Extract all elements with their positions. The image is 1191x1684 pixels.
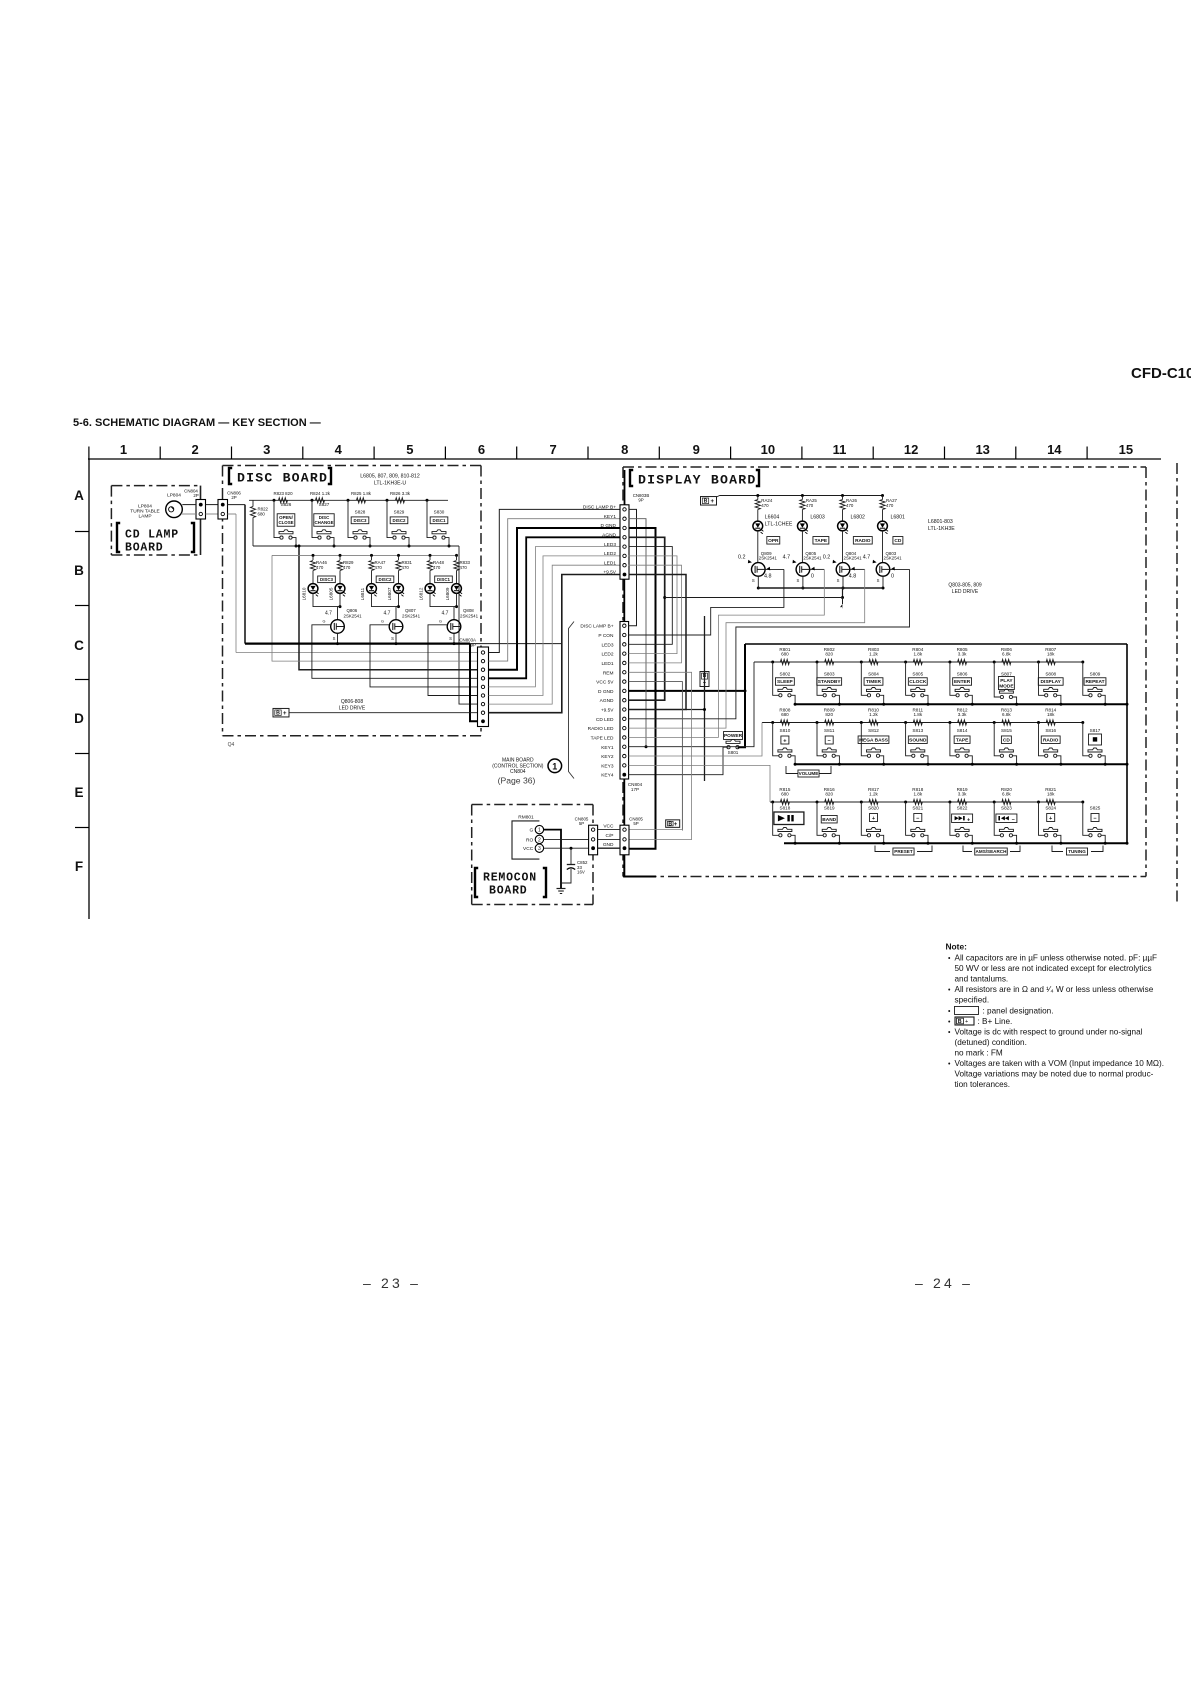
LED L6809 bbox=[452, 584, 462, 594]
svg-text:+9.5V: +9.5V bbox=[601, 708, 614, 714]
resistor RA48 470 bbox=[429, 554, 432, 557]
svg-text:0: 0 bbox=[811, 574, 814, 580]
switch S802 tap wire bbox=[771, 661, 774, 664]
svg-text:2SK2541: 2SK2541 bbox=[844, 556, 863, 561]
wire AGND to LED source bus bbox=[665, 597, 843, 599]
gate wire Q809 bbox=[765, 568, 784, 570]
svg-text:9P: 9P bbox=[638, 498, 643, 503]
grid ruler tick column 11 bbox=[801, 447, 803, 460]
gate wire Q803 bbox=[890, 568, 910, 570]
switch S824 tap wire bbox=[1037, 801, 1040, 804]
RM801 pin 2 RO bbox=[535, 835, 543, 843]
switch S805 bus wire bbox=[924, 695, 928, 704]
switch S811 bus wire bbox=[835, 756, 839, 765]
svg-text:BOARD: BOARD bbox=[489, 885, 528, 898]
svg-text:S806: S806 bbox=[957, 672, 968, 677]
panel label DISC2 bbox=[376, 576, 394, 583]
svg-text:Q4: Q4 bbox=[228, 742, 235, 748]
svg-text:KEY2: KEY2 bbox=[601, 754, 614, 760]
disc board key bus 2 bbox=[253, 545, 459, 547]
svg-text:BAND: BAND bbox=[822, 817, 836, 823]
grid ruler tick column 4 bbox=[302, 447, 304, 460]
svg-text:DISC2: DISC2 bbox=[393, 518, 406, 523]
wire KEY2 to row2 bbox=[629, 723, 762, 757]
svg-text:Q806: Q806 bbox=[347, 608, 358, 613]
svg-text:S813: S813 bbox=[912, 728, 923, 733]
wire CN804 to CN805 shell bbox=[623, 779, 625, 825]
wire B+ to CN803A pin8 bbox=[289, 712, 478, 714]
key matrix row 3 scan wire bbox=[770, 801, 1083, 803]
svg-text:GND: GND bbox=[603, 842, 614, 848]
LED L6803 bbox=[798, 521, 808, 531]
svg-text:0.2: 0.2 bbox=[823, 555, 831, 561]
svg-text:: panel designation.: : panel designation. bbox=[983, 1006, 1054, 1015]
svg-text:F: F bbox=[75, 859, 83, 874]
resistor R804 1.8k bbox=[913, 659, 922, 664]
svg-text:50 WV or less are not indicate: 50 WV or less are not indicated except f… bbox=[955, 964, 1152, 973]
svg-text:1: 1 bbox=[538, 828, 541, 834]
switch S819 tap wire bbox=[816, 801, 819, 804]
svg-text:18k: 18k bbox=[1047, 652, 1055, 657]
switch S811 tap wire bbox=[816, 721, 819, 724]
svg-text:All capacitors are in µF unles: All capacitors are in µF unless otherwis… bbox=[955, 954, 1158, 963]
svg-text:KEY1: KEY1 bbox=[601, 745, 614, 751]
svg-text:D: D bbox=[74, 711, 84, 726]
svg-text:TAPE: TAPE bbox=[956, 737, 969, 743]
svg-text:– 23 –: – 23 – bbox=[363, 1275, 421, 1291]
svg-text:Voltage is dc with respect to: Voltage is dc with respect to ground und… bbox=[955, 1027, 1143, 1036]
switch S805 tap wire bbox=[904, 661, 907, 664]
grid ruler tick column 5 bbox=[373, 447, 375, 460]
svg-text:R824 1.2k: R824 1.2k bbox=[310, 491, 331, 496]
grid ruler tick column 9 bbox=[658, 447, 660, 460]
svg-text:6.8k: 6.8k bbox=[1002, 652, 1011, 657]
wire KEY3 to row3 bbox=[629, 765, 770, 802]
REMOCON BOARD border bbox=[472, 804, 593, 806]
svg-text:S828: S828 bbox=[355, 510, 366, 515]
svg-text:LED1: LED1 bbox=[604, 560, 616, 566]
switch S820 bus wire bbox=[880, 835, 884, 843]
svg-text:E: E bbox=[74, 785, 83, 800]
wire LED to transistor Q805 bbox=[801, 531, 803, 563]
svg-text:CFD-C100: CFD-C100 bbox=[1131, 365, 1191, 382]
svg-text:820: 820 bbox=[825, 792, 833, 797]
wire AGND link bbox=[629, 537, 665, 700]
wire +9.5V to matrix rail bbox=[686, 616, 705, 710]
wire LED pair 1 cathode join bbox=[372, 593, 399, 606]
switch S815 tap wire bbox=[993, 721, 996, 724]
svg-text:L6604: L6604 bbox=[765, 515, 780, 521]
svg-text:5P: 5P bbox=[633, 821, 638, 826]
DISC BOARD border bbox=[223, 465, 482, 467]
switch S810 tap wire bbox=[771, 721, 774, 724]
svg-text:1.2k: 1.2k bbox=[869, 652, 878, 657]
svg-text:S: S bbox=[837, 578, 840, 583]
B+ box matrix feed bbox=[700, 672, 709, 687]
transistor Q806 2SK2541 bbox=[331, 620, 345, 634]
gate wire Q804 bbox=[850, 568, 865, 570]
svg-text:680: 680 bbox=[781, 652, 789, 657]
resistor R808 680 bbox=[780, 720, 789, 725]
svg-text:S: S bbox=[877, 578, 880, 583]
svg-text:4.8: 4.8 bbox=[764, 574, 772, 580]
svg-text:POWER: POWER bbox=[724, 733, 743, 739]
grid ruler tick column 12 bbox=[872, 447, 874, 460]
wire RADIO LED to Q804 gate bbox=[629, 569, 865, 728]
svg-text:LTL-1KH3E-U: LTL-1KH3E-U bbox=[374, 481, 406, 487]
svg-text:P CON: P CON bbox=[598, 633, 614, 639]
wire LED to transistor Q803 bbox=[882, 531, 884, 563]
switch S818 tap wire bbox=[771, 801, 774, 804]
transistor Q804 2SK2541 bbox=[836, 563, 850, 577]
svg-text:9: 9 bbox=[693, 442, 700, 457]
grid ruler tick column 15 bbox=[1086, 447, 1088, 460]
svg-text:+9.5V: +9.5V bbox=[603, 570, 616, 576]
gate wire Q808 bbox=[428, 625, 478, 696]
resistor RA25 470 bbox=[801, 494, 804, 497]
svg-text:S807: S807 bbox=[1001, 672, 1012, 677]
svg-text:TIMER: TIMER bbox=[866, 679, 881, 685]
cable wire CN803A pin8 to CN803B pin8 bbox=[489, 575, 621, 713]
svg-text:TAPE LED: TAPE LED bbox=[591, 735, 614, 741]
cable wire CN803A pin2 to CN803B pin2 bbox=[489, 519, 621, 661]
svg-text:KEY3: KEY3 bbox=[601, 763, 614, 769]
svg-text:D GND: D GND bbox=[601, 523, 617, 529]
svg-text:470: 470 bbox=[846, 503, 854, 508]
wire LED3 link bbox=[629, 547, 673, 645]
svg-text:S815: S815 bbox=[1001, 728, 1012, 733]
svg-text:REPEAT: REPEAT bbox=[1085, 679, 1104, 685]
wire KEY1 link bbox=[629, 519, 646, 747]
wire disc lamp B+ vertical bbox=[244, 505, 246, 644]
svg-text:Q807: Q807 bbox=[405, 608, 416, 613]
top grid ruler line bbox=[88, 458, 1161, 460]
svg-text:R826 3.3k: R826 3.3k bbox=[390, 491, 411, 496]
svg-text:B: B bbox=[74, 563, 84, 578]
svg-text:12: 12 bbox=[904, 442, 918, 457]
transistor Q803 2SK2541 bbox=[876, 563, 890, 577]
grid ruler tick column 3 bbox=[231, 447, 233, 460]
wire TAPE LED to Q805 gate bbox=[629, 569, 825, 737]
svg-text:Note:: Note: bbox=[946, 942, 967, 952]
svg-text:3: 3 bbox=[263, 442, 270, 457]
svg-text:1: 1 bbox=[120, 442, 127, 457]
svg-text:KEY1: KEY1 bbox=[604, 514, 617, 520]
wire key bus to CN803A pin7 bbox=[459, 546, 478, 704]
svg-text:S826: S826 bbox=[281, 502, 292, 507]
source wire Q807 bbox=[395, 633, 397, 643]
svg-text:2SK2541: 2SK2541 bbox=[884, 556, 903, 561]
switch S809 tap wire bbox=[1081, 661, 1084, 664]
PRESET group bracket bbox=[875, 846, 890, 852]
svg-text:STANDBY: STANDBY bbox=[818, 679, 842, 685]
svg-text:8: 8 bbox=[621, 442, 628, 457]
svg-text:LAMP: LAMP bbox=[138, 514, 151, 520]
svg-text:680: 680 bbox=[258, 512, 266, 517]
resistor R806 6.8k bbox=[1002, 659, 1011, 664]
svg-text:10: 10 bbox=[761, 442, 775, 457]
svg-text:G: G bbox=[529, 828, 533, 834]
LED L6805 bbox=[335, 584, 345, 594]
wire GND exit bottom bbox=[624, 855, 656, 877]
resistor R812 3.3k bbox=[958, 720, 967, 725]
wire DISC LAMP B+ link bbox=[629, 509, 637, 625]
svg-text:S811: S811 bbox=[824, 728, 835, 733]
resistor R819 3.3k bbox=[958, 799, 967, 804]
resistor R820 6.8k bbox=[1002, 799, 1011, 804]
svg-text:B: B bbox=[668, 822, 672, 828]
resistor R801 680 bbox=[780, 659, 789, 664]
LED L6812 bbox=[425, 584, 435, 594]
svg-text:Q806-808: Q806-808 bbox=[341, 699, 363, 705]
DISC BOARD title bbox=[229, 468, 232, 484]
switch S818 bus wire bbox=[791, 835, 795, 843]
resistor RA46 470 bbox=[312, 554, 315, 557]
connector CN806 2P on disc board edge bbox=[218, 500, 228, 520]
svg-text:S824: S824 bbox=[1045, 806, 1056, 811]
svg-text:SLEEP: SLEEP bbox=[777, 679, 794, 685]
svg-text:18k: 18k bbox=[1047, 712, 1055, 717]
resistor R829 470 bbox=[339, 554, 342, 557]
CD LAMP BOARD title bbox=[117, 523, 120, 552]
svg-text:6: 6 bbox=[478, 442, 485, 457]
svg-text:MODE: MODE bbox=[999, 684, 1014, 690]
svg-text:2SK2541: 2SK2541 bbox=[803, 556, 822, 561]
svg-text:DISC3: DISC3 bbox=[354, 518, 367, 523]
svg-text:470: 470 bbox=[460, 565, 468, 570]
svg-text:S830: S830 bbox=[434, 510, 445, 515]
switch S821 tap wire bbox=[904, 801, 907, 804]
svg-text:D GND: D GND bbox=[598, 689, 614, 695]
svg-text:REM: REM bbox=[603, 670, 614, 676]
svg-text:S823: S823 bbox=[1001, 806, 1012, 811]
grid ruler tick column 6 bbox=[444, 447, 446, 460]
page fold dash-dot line bbox=[1176, 463, 1178, 902]
svg-text:L6811: L6811 bbox=[360, 587, 365, 600]
cable wire CN803A pin3 to CN803B pin3 bbox=[489, 528, 621, 670]
wire D GND main thick bbox=[629, 528, 656, 849]
svg-text:470: 470 bbox=[375, 565, 383, 570]
wire RM801 RO to CN805 bbox=[544, 838, 589, 840]
svg-text:S: S bbox=[449, 636, 452, 641]
svg-text:820: 820 bbox=[825, 712, 833, 717]
grid ruler row tick 1 bbox=[75, 605, 89, 607]
source wire Q809 bbox=[757, 576, 759, 588]
switch S817 tap wire bbox=[1081, 721, 1084, 724]
svg-text:+: + bbox=[965, 1019, 968, 1025]
svg-text:16V: 16V bbox=[577, 870, 585, 875]
svg-text:+: + bbox=[967, 818, 970, 824]
svg-text:CD LAMP: CD LAMP bbox=[125, 529, 179, 542]
grid ruler row tick 2 bbox=[75, 679, 89, 681]
cable wire CN803A pin4 to CN803B pin4 bbox=[489, 537, 621, 678]
wire REM to remocon C/P bbox=[629, 672, 692, 839]
svg-text:RM801: RM801 bbox=[518, 815, 534, 821]
left grid ruler line bbox=[88, 459, 90, 919]
svg-text:S808: S808 bbox=[1045, 672, 1056, 677]
svg-text:+: + bbox=[283, 711, 287, 717]
LED L6802 bbox=[838, 521, 848, 531]
S801 left wire to KEY4 bbox=[629, 747, 729, 775]
switch S801 POWER bbox=[724, 732, 743, 740]
svg-text:KEY4: KEY4 bbox=[601, 773, 614, 779]
disc board key ladder bus bbox=[249, 499, 448, 501]
LED L6810 bbox=[308, 584, 318, 594]
resistor R831 470 bbox=[397, 554, 400, 557]
svg-text:470: 470 bbox=[761, 503, 769, 508]
ground symbol remocon bbox=[557, 888, 566, 890]
transistor Q805 2SK2541 bbox=[796, 563, 810, 577]
svg-text:5-6. SCHEMATIC DIAGRAM — KEY S: 5-6. SCHEMATIC DIAGRAM — KEY SECTION — bbox=[73, 417, 321, 429]
switch S806 bus wire bbox=[968, 695, 972, 704]
svg-text:S814: S814 bbox=[957, 728, 968, 733]
svg-text:DISC2: DISC2 bbox=[379, 577, 392, 582]
wire VCC 5V to remocon VCC bbox=[629, 682, 683, 830]
svg-text:: B+ Line.: : B+ Line. bbox=[978, 1017, 1013, 1026]
source wire Q803 bbox=[882, 576, 884, 588]
svg-text:AGND: AGND bbox=[600, 698, 614, 704]
connector CN805 5P remocon side bbox=[589, 825, 598, 855]
connector CN805 5P main side bbox=[620, 825, 629, 855]
svg-text:CLOCK: CLOCK bbox=[909, 679, 927, 685]
resistor R821 18k bbox=[1046, 799, 1055, 804]
resistor R818 1.8k bbox=[913, 799, 922, 804]
switch S804 bus wire bbox=[880, 695, 884, 704]
connector CN804 17P bbox=[620, 622, 629, 780]
switch S815 bus wire bbox=[1013, 756, 1017, 765]
svg-text:S: S bbox=[797, 578, 800, 583]
svg-text:OPR: OPR bbox=[768, 538, 779, 544]
switch S803 bus wire bbox=[835, 695, 839, 704]
svg-text:(Page 36): (Page 36) bbox=[498, 776, 536, 786]
callout bracket for CN804 bbox=[569, 622, 575, 779]
svg-text:PRESET: PRESET bbox=[894, 849, 913, 854]
resistor R833 470 bbox=[455, 554, 458, 557]
grid ruler tick column 10 bbox=[730, 447, 732, 460]
svg-text:REMOCON: REMOCON bbox=[483, 872, 537, 885]
wire LED pair 0 cathode join bbox=[313, 593, 340, 606]
wire horizontal to CN803A pin1 bbox=[236, 652, 478, 654]
resistor RA47 470 bbox=[370, 554, 373, 557]
AMS SEARCH group bracket bbox=[963, 846, 972, 852]
svg-text:CN804: CN804 bbox=[510, 769, 526, 775]
svg-text:DISPLAY BOARD: DISPLAY BOARD bbox=[638, 473, 756, 488]
RM801 pin 3 VCC bbox=[535, 844, 543, 852]
key matrix row 2 scan wire bbox=[762, 722, 1083, 724]
svg-text:R823 820: R823 820 bbox=[273, 491, 293, 496]
panel label RADIO bbox=[853, 537, 872, 545]
svg-text:B: B bbox=[958, 1019, 962, 1025]
D GND wire thick bbox=[629, 690, 745, 692]
resistor R817 1.2k bbox=[869, 799, 878, 804]
switch S816 tap wire bbox=[1037, 721, 1040, 724]
transistor Q808 2SK2541 bbox=[447, 620, 461, 634]
resistor R807 18k bbox=[1046, 659, 1055, 664]
key matrix right edge bus bbox=[1126, 644, 1128, 843]
disc board ground bus thick bbox=[245, 642, 470, 644]
switch S822 bus wire bbox=[968, 835, 972, 843]
svg-text:ENTER: ENTER bbox=[954, 679, 971, 685]
switch S821 bus wire bbox=[924, 835, 928, 843]
svg-text:VCC: VCC bbox=[603, 823, 614, 829]
svg-text:S: S bbox=[333, 636, 336, 641]
switch S823 tap wire bbox=[993, 801, 996, 804]
svg-text:B: B bbox=[703, 673, 707, 679]
VOLUME group bracket bbox=[786, 766, 798, 774]
svg-text:S809: S809 bbox=[1090, 672, 1101, 677]
AGND drop from source bus bbox=[842, 588, 844, 598]
svg-text:470: 470 bbox=[343, 565, 351, 570]
svg-text:DISC1: DISC1 bbox=[437, 577, 450, 582]
switch S807 tap wire bbox=[993, 661, 996, 664]
svg-text:5P: 5P bbox=[579, 821, 584, 826]
svg-text:S816: S816 bbox=[1045, 728, 1056, 733]
wire KEY1 to row1 bbox=[629, 662, 754, 747]
resistor R802 820 bbox=[825, 659, 834, 664]
svg-text:B: B bbox=[704, 499, 708, 505]
svg-text:S804: S804 bbox=[868, 672, 879, 677]
cable wire CN803A pin1 to CN803B pin1 bbox=[489, 509, 621, 652]
svg-text:L6803: L6803 bbox=[810, 515, 825, 521]
source wire Q804 bbox=[842, 576, 844, 588]
svg-text:0: 0 bbox=[891, 574, 894, 580]
grid ruler tick column 2 bbox=[159, 447, 161, 460]
svg-text:specified.: specified. bbox=[955, 996, 990, 1005]
svg-text:DISC1: DISC1 bbox=[433, 518, 446, 523]
resistor R805 3.3k bbox=[958, 659, 967, 664]
svg-text:L6812: L6812 bbox=[419, 587, 424, 600]
cable wire CN803A pin6 to CN803B pin6 bbox=[489, 556, 621, 696]
grid ruler row tick 4 bbox=[75, 827, 89, 829]
svg-text:S812: S812 bbox=[868, 728, 879, 733]
wire P CON to Q809 gate bbox=[629, 569, 784, 635]
wire +9.5V link bbox=[629, 575, 686, 710]
DISPLAY BOARD title bbox=[630, 470, 633, 486]
panel label CD bbox=[893, 537, 903, 545]
svg-text:TUNING: TUNING bbox=[1068, 849, 1086, 854]
DISPLAY BOARD border bbox=[623, 466, 1146, 468]
svg-text:+: + bbox=[674, 822, 678, 828]
switch S813 tap wire bbox=[904, 721, 907, 724]
wire +9.5V riser lower bbox=[704, 710, 706, 782]
svg-text:S829: S829 bbox=[394, 510, 405, 515]
svg-text:13: 13 bbox=[975, 442, 989, 457]
svg-text:A: A bbox=[74, 488, 84, 503]
svg-text:3.3k: 3.3k bbox=[958, 652, 967, 657]
svg-text:L6805: L6805 bbox=[329, 587, 334, 600]
svg-text:RO: RO bbox=[526, 837, 533, 843]
wire CD LED to Q803 gate bbox=[629, 569, 910, 718]
svg-text:no mark : FM: no mark : FM bbox=[955, 1048, 1003, 1057]
switch S812 bus wire bbox=[880, 756, 884, 765]
B+ box near CN805 bbox=[666, 820, 680, 828]
svg-text:4: 4 bbox=[335, 442, 343, 457]
resistor R815 680 bbox=[780, 799, 789, 804]
source wire Q805 bbox=[802, 576, 804, 588]
connector CN803B 9P bbox=[620, 505, 629, 579]
wire LED2 link bbox=[629, 556, 677, 654]
svg-text:S818: S818 bbox=[780, 806, 791, 811]
display LED source bus bbox=[758, 587, 883, 589]
svg-text:MEGA BASS: MEGA BASS bbox=[859, 737, 889, 743]
svg-text:LED DRIVE: LED DRIVE bbox=[339, 706, 366, 712]
switch S809 bus wire bbox=[1101, 695, 1105, 704]
svg-text:LED2: LED2 bbox=[604, 551, 616, 557]
wire lamp to CN804 bottom bbox=[181, 513, 196, 515]
svg-text:1.8k: 1.8k bbox=[913, 712, 922, 717]
transistor Q809 2SK2541 bbox=[752, 563, 766, 577]
resistor RA26 470 bbox=[841, 494, 844, 497]
